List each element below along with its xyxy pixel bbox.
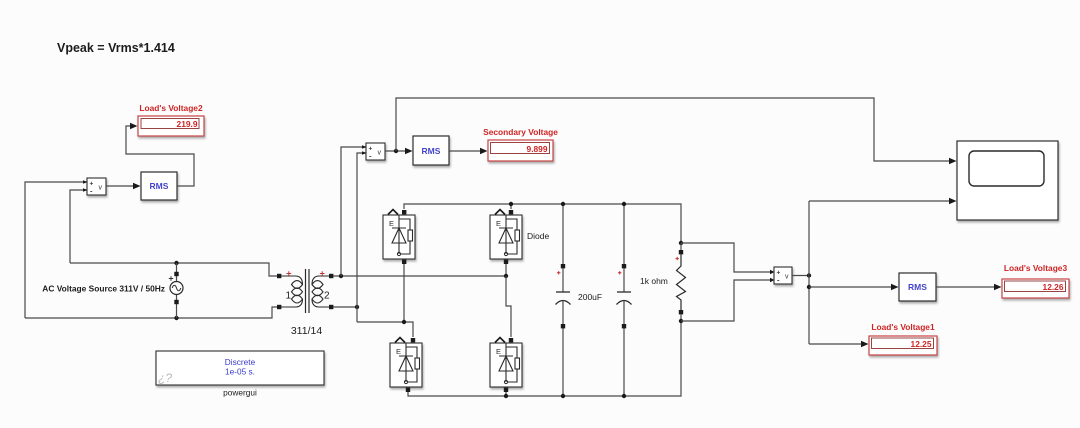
display Loads Voltage2 — [138, 103, 204, 136]
diode D2 — [490, 210, 522, 265]
wire diode D1 bottom down — [403, 264, 405, 322]
node C2 bottom junction — [622, 394, 626, 398]
svg-text:E: E — [496, 347, 501, 356]
node top AC junction — [174, 261, 178, 265]
diode D4 — [490, 338, 522, 393]
svg-text:RMS: RMS — [422, 146, 441, 156]
node secondary plus junction — [339, 274, 343, 278]
svg-text:powergui: powergui — [223, 388, 257, 398]
node C1 top junction — [561, 202, 565, 206]
node secondary minus junction — [355, 305, 359, 309]
wire C1 top — [562, 204, 564, 266]
wire diode D2 bottom down — [505, 264, 507, 276]
wire D4 bottom stub — [505, 391, 507, 396]
svg-text:9.899: 9.899 — [527, 144, 548, 154]
transformer primary winding — [277, 274, 281, 278]
node scope tap junction — [394, 149, 398, 153]
RMS block RMS1 — [141, 172, 177, 200]
wire RMS1 output to display Loads Voltage2 — [126, 126, 194, 186]
wire VM2 minus down to bridge — [357, 153, 366, 322]
display Loads Voltage3 — [1002, 263, 1069, 298]
wire C1 bottom — [562, 328, 564, 396]
node C1 bottom junction — [561, 394, 565, 398]
wire load plus to VM3 — [681, 243, 770, 272]
wire secondary plus up to VM2 — [341, 147, 366, 276]
wire VM2 output to RMS2 — [385, 150, 405, 152]
svg-text:E: E — [396, 347, 401, 356]
wire to diode D3 top — [357, 322, 413, 337]
AC voltage source V1 — [169, 263, 183, 318]
svg-text:12.25: 12.25 — [911, 339, 932, 349]
wire to RMS3 — [809, 286, 891, 288]
svg-text:12.26: 12.26 — [1043, 282, 1064, 292]
svg-text:v: v — [378, 150, 382, 157]
wire scope feed rail top — [396, 98, 949, 161]
node D2 anode junction — [504, 274, 508, 278]
wire VM3 output — [792, 275, 809, 277]
wire bottom AC net to transformer primary bottom — [25, 307, 277, 318]
svg-text:Load's Voltage3: Load's Voltage3 — [1004, 263, 1068, 273]
wire D2 top stub — [510, 204, 512, 209]
capacitor C2 — [617, 264, 632, 328]
resistor R1 1k ohm — [676, 241, 686, 323]
wire secondary plus net — [333, 275, 506, 277]
display Secondary Voltage — [483, 127, 558, 161]
node D4 anode rail junction — [504, 394, 508, 398]
svg-text:v: v — [785, 274, 789, 281]
voltage measurement VM1 — [83, 178, 106, 196]
svg-text:200uF: 200uF — [578, 292, 602, 302]
node C2 top junction — [622, 202, 626, 206]
capacitor C1 — [556, 264, 571, 328]
svg-text:Load's Voltage1: Load's Voltage1 — [871, 322, 935, 332]
RMS block RMS2 — [413, 136, 449, 165]
wire load minus to VM3 — [681, 280, 770, 321]
svg-text:Load's Voltage2: Load's Voltage2 — [139, 103, 203, 113]
diode D1 — [383, 210, 415, 265]
transformer secondary winding — [329, 274, 333, 278]
voltage measurement VM2 — [362, 143, 385, 161]
svg-text:¿?: ¿? — [158, 371, 172, 385]
scope — [957, 141, 1058, 220]
transformer core — [306, 269, 310, 313]
svg-text:1e-05 s.: 1e-05 s. — [225, 367, 255, 377]
wire RMS2 output to display Secondary Voltage — [449, 150, 480, 152]
wire to diode D4 top — [506, 276, 511, 337]
svg-text:Diode: Diode — [527, 231, 549, 241]
RMS block RMS3 — [899, 273, 936, 301]
voltage measurement VM3 — [774, 267, 792, 285]
display Loads Voltage1 — [869, 322, 937, 355]
node D1 anode junction — [402, 320, 406, 324]
wire secondary minus net — [333, 306, 357, 308]
wire measurement bus vertical — [808, 201, 810, 344]
svg-text:219.9: 219.9 — [177, 119, 198, 129]
wire VM1 output to RMS1 — [106, 185, 133, 187]
svg-text:311/14: 311/14 — [291, 325, 322, 337]
node RMS3 tap junction — [807, 285, 811, 289]
node D2 cathode junction — [509, 202, 513, 206]
svg-text:1: 1 — [285, 291, 291, 302]
svg-text:2: 2 — [324, 291, 330, 302]
svg-text:RMS: RMS — [908, 282, 927, 292]
wire to display Loads Voltage1 — [809, 343, 861, 345]
wire to scope input 2 — [809, 200, 949, 202]
svg-text:1k ohm: 1k ohm — [640, 276, 668, 286]
transformer polarity marks — [287, 271, 292, 276]
wire RMS3 output to display Loads Voltage3 — [936, 286, 994, 288]
powergui block — [156, 351, 324, 398]
node bottom AC junction — [174, 316, 178, 320]
svg-text:RMS: RMS — [150, 181, 169, 191]
svg-text:Discrete: Discrete — [225, 357, 256, 367]
wire VM1 plus input to bottom rail — [25, 182, 87, 318]
wire C2 bottom — [623, 328, 625, 396]
wire VM1 minus input to top rail — [70, 190, 87, 263]
svg-text:E: E — [389, 219, 394, 228]
svg-text:E: E — [496, 219, 501, 228]
wire DC negative rail — [408, 321, 681, 396]
wire top AC net to transformer primary top — [70, 263, 277, 276]
diode D3 — [390, 338, 422, 393]
svg-text:AC Voltage Source 311V / 50Hz: AC Voltage Source 311V / 50Hz — [42, 284, 165, 294]
transformer T1 — [277, 269, 333, 313]
wire C2 top — [623, 204, 625, 266]
svg-text:Secondary Voltage: Secondary Voltage — [483, 127, 558, 137]
node VM3 output junction — [807, 273, 811, 277]
wire DC positive rail — [404, 204, 681, 243]
svg-text:Vpeak = Vrms*1.414: Vpeak = Vrms*1.414 — [57, 41, 175, 55]
svg-text:v: v — [99, 185, 103, 192]
